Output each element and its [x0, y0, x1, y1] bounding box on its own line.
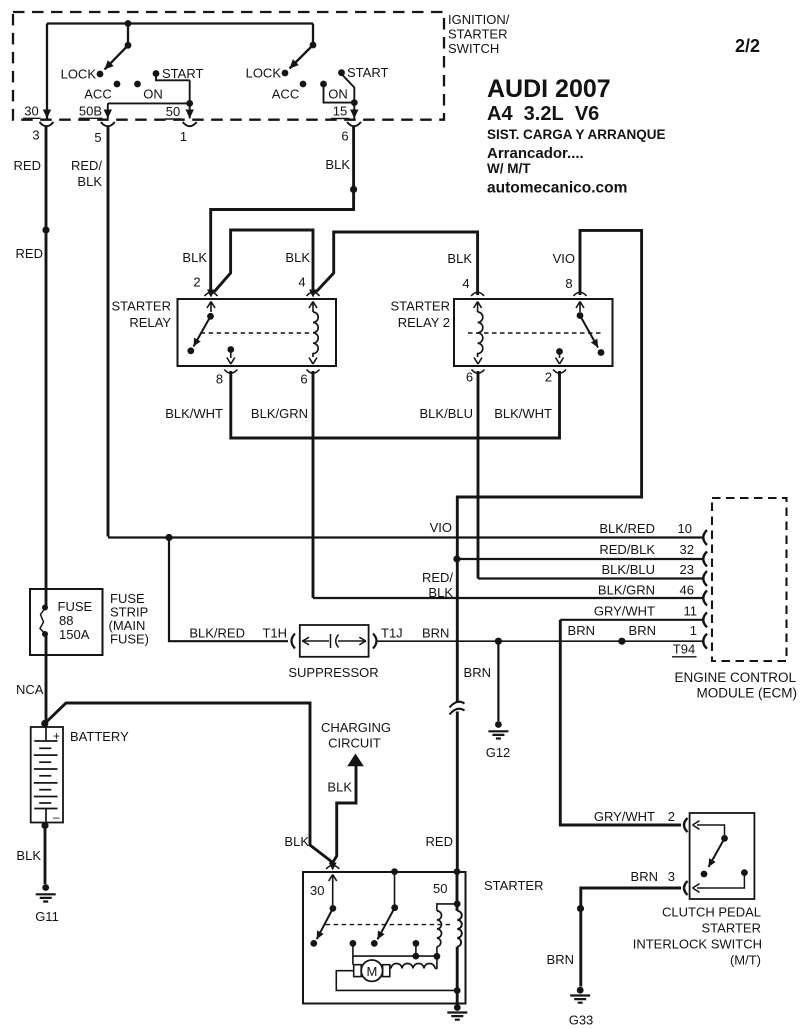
svg-text:15: 15 [333, 104, 347, 119]
svg-text:CLUTCH PEDAL: CLUTCH PEDAL [662, 905, 761, 920]
svg-text:BRN: BRN [422, 626, 449, 641]
svg-text:ON: ON [328, 87, 348, 102]
svg-text:START: START [162, 66, 203, 81]
svg-text:88: 88 [59, 613, 73, 628]
svg-text:(M/T): (M/T) [730, 953, 761, 968]
svg-text:RELAY 2: RELAY 2 [398, 315, 450, 330]
svg-text:BLK: BLK [77, 174, 102, 189]
svg-text:BLK: BLK [428, 585, 453, 600]
svg-text:GRY/WHT: GRY/WHT [594, 603, 655, 618]
svg-text:1: 1 [180, 129, 187, 144]
svg-text:M: M [366, 964, 377, 979]
svg-text:Arrancador....: Arrancador.... [487, 145, 584, 162]
svg-text:BRN: BRN [547, 952, 574, 967]
svg-text:W/ M/T: W/ M/T [487, 161, 531, 176]
svg-text:CHARGING: CHARGING [321, 720, 391, 735]
svg-text:ON: ON [143, 87, 163, 102]
svg-text:automecanico.com: automecanico.com [487, 180, 627, 197]
svg-text:G12: G12 [486, 745, 511, 760]
svg-text:LOCK: LOCK [246, 66, 282, 81]
svg-text:BRN: BRN [629, 623, 656, 638]
svg-text:T1J: T1J [381, 626, 403, 641]
svg-text:3: 3 [668, 869, 675, 884]
svg-text:T1H: T1H [262, 626, 287, 641]
svg-text:–: – [53, 810, 60, 824]
svg-text:ACC: ACC [272, 87, 299, 102]
svg-text:STARTER: STARTER [448, 27, 507, 42]
svg-text:BLK/RED: BLK/RED [599, 521, 655, 536]
svg-text:RED/BLK: RED/BLK [599, 542, 655, 557]
svg-text:2/2: 2/2 [735, 36, 760, 56]
svg-text:BLK/BLU: BLK/BLU [420, 406, 473, 421]
svg-text:RED: RED [16, 246, 43, 261]
svg-text:BLK/WHT: BLK/WHT [165, 406, 223, 421]
svg-text:ACC: ACC [84, 87, 111, 102]
svg-text:4: 4 [462, 276, 469, 291]
svg-text:BLK/GRN: BLK/GRN [598, 583, 655, 598]
svg-text:150A: 150A [59, 627, 90, 642]
svg-text:BLK: BLK [285, 250, 310, 265]
svg-text:GRY/WHT: GRY/WHT [594, 809, 655, 824]
svg-text:2: 2 [193, 275, 200, 290]
svg-text:8: 8 [565, 276, 572, 291]
svg-text:RED: RED [426, 834, 453, 849]
svg-text:6: 6 [341, 129, 348, 144]
svg-text:MODULE (ECM): MODULE (ECM) [697, 686, 798, 701]
svg-text:BLK: BLK [327, 780, 352, 795]
svg-text:BLK: BLK [16, 848, 41, 863]
svg-text:BLK: BLK [182, 250, 207, 265]
svg-text:ENGINE CONTROL: ENGINE CONTROL [674, 670, 796, 685]
svg-text:STARTER: STARTER [702, 921, 761, 936]
svg-text:46: 46 [680, 583, 694, 598]
svg-text:5: 5 [94, 130, 101, 145]
svg-text:SUPPRESSOR: SUPPRESSOR [288, 665, 378, 680]
svg-text:VIO: VIO [553, 251, 575, 266]
svg-text:IGNITION/: IGNITION/ [448, 12, 510, 27]
svg-text:BLK/GRN: BLK/GRN [251, 406, 308, 421]
svg-text:G11: G11 [35, 909, 59, 924]
svg-text:BLK: BLK [284, 834, 309, 849]
svg-text:NCA: NCA [16, 682, 44, 697]
svg-text:STARTER: STARTER [112, 299, 171, 314]
svg-text:BLK: BLK [325, 157, 350, 172]
svg-text:RED/: RED/ [71, 158, 102, 173]
svg-text:BRN: BRN [631, 869, 658, 884]
svg-text:START: START [347, 65, 388, 80]
svg-text:RED/: RED/ [422, 570, 453, 585]
svg-text:INTERLOCK SWITCH: INTERLOCK SWITCH [633, 937, 762, 952]
svg-text:RELAY: RELAY [129, 315, 171, 330]
svg-text:50: 50 [166, 104, 180, 119]
svg-text:30: 30 [310, 883, 324, 898]
svg-text:G33: G33 [569, 1013, 594, 1028]
svg-text:STARTER: STARTER [391, 299, 450, 314]
svg-text:2: 2 [545, 370, 552, 385]
svg-text:32: 32 [680, 542, 694, 557]
svg-text:BLK/RED: BLK/RED [189, 626, 245, 641]
svg-text:FUSE: FUSE [58, 599, 93, 614]
svg-text:RED: RED [14, 158, 41, 173]
svg-text:BLK/WHT: BLK/WHT [494, 406, 552, 421]
svg-text:BATTERY: BATTERY [70, 729, 129, 744]
svg-text:BLK/BLU: BLK/BLU [602, 562, 655, 577]
svg-text:+: + [53, 729, 60, 743]
svg-text:BLK: BLK [447, 251, 472, 266]
svg-text:BRN: BRN [568, 623, 595, 638]
svg-text:FUSE): FUSE) [110, 632, 149, 647]
svg-text:LOCK: LOCK [61, 67, 97, 82]
svg-text:T94: T94 [673, 642, 695, 657]
svg-text:A4 3.2L V6: A4 3.2L V6 [487, 103, 599, 125]
svg-text:BRN: BRN [464, 665, 491, 680]
svg-text:SIST. CARGA Y ARRANQUE: SIST. CARGA Y ARRANQUE [487, 127, 666, 142]
svg-text:2: 2 [668, 809, 675, 824]
svg-text:8: 8 [216, 372, 223, 387]
svg-text:30: 30 [24, 104, 38, 119]
svg-text:11: 11 [684, 603, 698, 618]
svg-text:50: 50 [433, 881, 447, 896]
svg-text:23: 23 [680, 562, 694, 577]
svg-text:CIRCUIT: CIRCUIT [328, 736, 381, 751]
svg-text:STARTER: STARTER [484, 878, 543, 893]
svg-text:SWITCH: SWITCH [448, 41, 499, 56]
svg-text:3: 3 [32, 128, 39, 143]
svg-text:50B: 50B [79, 104, 102, 119]
svg-text:1: 1 [690, 623, 697, 638]
svg-text:AUDI 2007: AUDI 2007 [487, 75, 611, 103]
svg-text:10: 10 [678, 521, 692, 536]
svg-text:VIO: VIO [430, 520, 452, 535]
svg-text:6: 6 [300, 372, 307, 387]
svg-text:4: 4 [298, 275, 305, 290]
svg-text:6: 6 [466, 370, 473, 385]
